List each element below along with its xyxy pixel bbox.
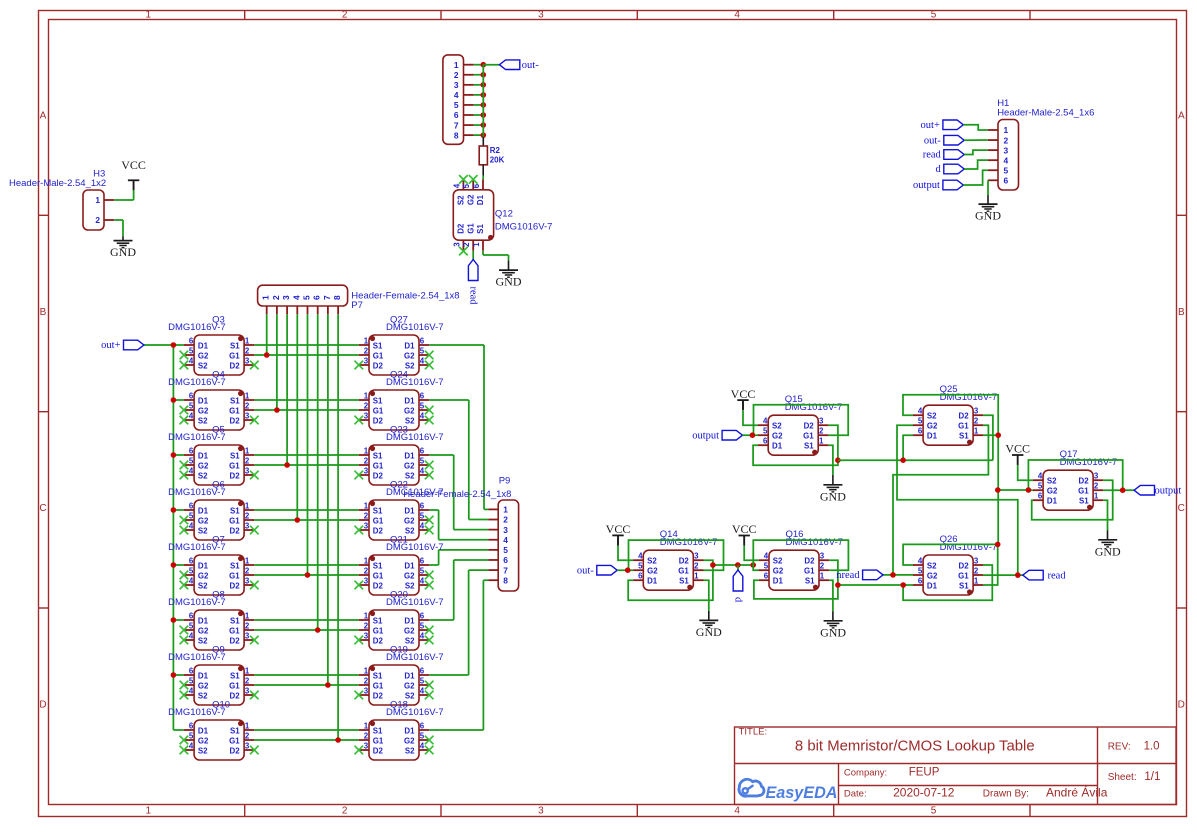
svg-text:D1: D1 — [404, 506, 415, 515]
svg-text:S2: S2 — [772, 422, 782, 431]
svg-text:1: 1 — [1094, 492, 1099, 501]
svg-text:D2: D2 — [804, 422, 815, 431]
svg-text:Header-Female-2.54_1x8: Header-Female-2.54_1x8 — [351, 290, 459, 301]
svg-text:5: 5 — [764, 562, 769, 571]
svg-text:4: 4 — [638, 552, 643, 561]
svg-text:4: 4 — [189, 357, 194, 366]
svg-text:4: 4 — [291, 295, 301, 300]
svg-text:G2: G2 — [927, 571, 938, 580]
svg-text:6: 6 — [189, 557, 194, 566]
svg-text:S1: S1 — [230, 671, 240, 680]
svg-text:6: 6 — [472, 183, 481, 188]
svg-text:D1: D1 — [198, 671, 209, 680]
svg-text:G2: G2 — [466, 194, 475, 205]
svg-text:6: 6 — [189, 447, 194, 456]
svg-text:G1: G1 — [373, 736, 384, 745]
svg-text:1.0: 1.0 — [1144, 741, 1160, 753]
svg-text:3: 3 — [245, 357, 250, 366]
svg-text:G2: G2 — [404, 626, 415, 635]
svg-text:1: 1 — [472, 242, 481, 247]
svg-text:5: 5 — [189, 622, 194, 631]
svg-text:DMG1016V-7: DMG1016V-7 — [168, 597, 226, 608]
svg-text:D1: D1 — [404, 451, 415, 460]
svg-text:S1: S1 — [373, 396, 383, 405]
svg-text:read: read — [468, 287, 479, 306]
svg-text:G2: G2 — [1047, 487, 1058, 496]
svg-text:1/1: 1/1 — [1144, 771, 1160, 783]
svg-text:G1: G1 — [1078, 487, 1089, 496]
svg-text:G2: G2 — [647, 567, 658, 576]
svg-text:4: 4 — [420, 577, 425, 586]
svg-text:S2: S2 — [198, 526, 208, 535]
svg-text:S2: S2 — [927, 561, 937, 570]
svg-text:4: 4 — [454, 90, 459, 100]
svg-text:1: 1 — [454, 60, 459, 70]
svg-text:3: 3 — [974, 557, 979, 566]
svg-text:S2: S2 — [927, 412, 937, 421]
svg-text:2: 2 — [454, 70, 459, 80]
svg-text:4: 4 — [918, 407, 923, 416]
svg-text:3: 3 — [974, 407, 979, 416]
svg-text:3: 3 — [1094, 472, 1099, 481]
svg-text:4: 4 — [420, 632, 425, 641]
svg-text:6: 6 — [420, 502, 425, 511]
svg-text:2: 2 — [974, 417, 979, 426]
svg-text:1: 1 — [364, 337, 369, 346]
svg-text:G2: G2 — [773, 567, 784, 576]
svg-text:1: 1 — [146, 10, 152, 21]
svg-text:4: 4 — [1004, 155, 1009, 165]
svg-text:1: 1 — [820, 572, 825, 581]
svg-text:3: 3 — [538, 806, 544, 817]
svg-text:G2: G2 — [198, 626, 209, 635]
svg-text:3: 3 — [452, 242, 461, 247]
svg-text:D1: D1 — [404, 671, 415, 680]
svg-text:S1: S1 — [373, 671, 383, 680]
svg-text:G1: G1 — [229, 736, 240, 745]
svg-text:3: 3 — [1004, 145, 1009, 155]
svg-text:S1: S1 — [230, 506, 240, 515]
svg-text:DMG1016V-7: DMG1016V-7 — [785, 402, 843, 413]
svg-text:output: output — [692, 430, 719, 441]
svg-text:2: 2 — [694, 562, 699, 571]
svg-text:5: 5 — [420, 512, 425, 521]
svg-text:Header-Male-2.54_1x2: Header-Male-2.54_1x2 — [9, 178, 106, 189]
svg-text:G2: G2 — [404, 516, 415, 525]
svg-text:S2: S2 — [405, 746, 415, 755]
svg-text:4: 4 — [189, 467, 194, 476]
svg-text:output: output — [1155, 485, 1182, 496]
svg-text:D2: D2 — [230, 416, 241, 425]
svg-text:D1: D1 — [198, 616, 209, 625]
svg-text:S1: S1 — [373, 451, 383, 460]
svg-text:S2: S2 — [647, 557, 657, 566]
svg-text:3: 3 — [245, 687, 250, 696]
svg-text:DMG1016V-7: DMG1016V-7 — [168, 432, 226, 443]
svg-text:GND: GND — [110, 245, 136, 259]
svg-text:out-: out- — [522, 60, 539, 71]
svg-text:R2: R2 — [490, 146, 501, 155]
svg-text:DMG1016V-7: DMG1016V-7 — [495, 221, 553, 232]
svg-text:S1: S1 — [230, 726, 240, 735]
svg-text:6: 6 — [638, 572, 643, 581]
svg-text:DMG1016V-7: DMG1016V-7 — [660, 537, 718, 548]
svg-text:4: 4 — [763, 417, 768, 426]
svg-text:Company:: Company: — [844, 768, 887, 779]
svg-text:5: 5 — [918, 417, 923, 426]
svg-text:G1: G1 — [229, 461, 240, 470]
svg-text:D1: D1 — [773, 577, 784, 586]
svg-text:2: 2 — [364, 512, 369, 521]
svg-text:S1: S1 — [804, 442, 814, 451]
svg-text:B: B — [1178, 307, 1185, 318]
svg-text:3: 3 — [364, 632, 369, 641]
svg-text:1: 1 — [819, 437, 824, 446]
svg-text:1: 1 — [245, 447, 250, 456]
svg-text:G1: G1 — [373, 681, 384, 690]
svg-text:D2: D2 — [1079, 477, 1090, 486]
svg-text:2: 2 — [245, 512, 250, 521]
svg-text:5: 5 — [189, 457, 194, 466]
svg-text:S2: S2 — [457, 195, 466, 205]
svg-text:3: 3 — [245, 577, 250, 586]
svg-text:1: 1 — [245, 722, 250, 731]
svg-text:5: 5 — [420, 347, 425, 356]
svg-text:G2: G2 — [198, 681, 209, 690]
svg-text:3: 3 — [364, 522, 369, 531]
svg-text:DMG1016V-7: DMG1016V-7 — [386, 487, 444, 498]
svg-text:6: 6 — [1004, 176, 1009, 186]
svg-text:6: 6 — [763, 437, 768, 446]
svg-text:5: 5 — [302, 295, 312, 300]
svg-text:6: 6 — [420, 722, 425, 731]
svg-text:4: 4 — [189, 412, 194, 421]
svg-text:Header-Male-2.54_1x6: Header-Male-2.54_1x6 — [997, 107, 1094, 118]
svg-text:5: 5 — [189, 567, 194, 576]
svg-text:out+: out+ — [921, 120, 940, 131]
svg-text:D2: D2 — [959, 412, 970, 421]
svg-text:5: 5 — [420, 622, 425, 631]
svg-text:1: 1 — [364, 557, 369, 566]
svg-text:5: 5 — [931, 10, 937, 21]
svg-text:1: 1 — [364, 447, 369, 456]
svg-text:out-: out- — [577, 565, 594, 576]
svg-text:DMG1016V-7: DMG1016V-7 — [168, 487, 226, 498]
svg-text:read: read — [923, 150, 942, 161]
svg-text:Sheet:: Sheet: — [1108, 772, 1137, 783]
svg-text:3: 3 — [819, 417, 824, 426]
svg-text:S1: S1 — [373, 506, 383, 515]
svg-text:3: 3 — [454, 80, 459, 90]
svg-text:6: 6 — [420, 392, 425, 401]
svg-text:A: A — [1178, 111, 1185, 122]
svg-text:2: 2 — [364, 457, 369, 466]
svg-text:D1: D1 — [198, 726, 209, 735]
svg-text:6: 6 — [420, 337, 425, 346]
svg-text:S2: S2 — [198, 471, 208, 480]
svg-text:S2: S2 — [773, 557, 783, 566]
svg-text:6: 6 — [189, 722, 194, 731]
svg-text:3: 3 — [503, 525, 508, 535]
svg-text:G1: G1 — [373, 351, 384, 360]
svg-text:2: 2 — [819, 427, 824, 436]
svg-text:4: 4 — [420, 742, 425, 751]
svg-text:3: 3 — [364, 687, 369, 696]
svg-text:4: 4 — [420, 467, 425, 476]
svg-text:6: 6 — [420, 557, 425, 566]
svg-text:1: 1 — [245, 667, 250, 676]
svg-text:4: 4 — [764, 552, 769, 561]
svg-text:D1: D1 — [404, 341, 415, 350]
svg-text:GND: GND — [496, 275, 522, 289]
svg-text:6: 6 — [189, 392, 194, 401]
svg-text:1: 1 — [245, 502, 250, 511]
svg-text:DMG1016V-7: DMG1016V-7 — [1060, 457, 1118, 468]
svg-text:S1: S1 — [959, 432, 969, 441]
svg-text:4: 4 — [189, 632, 194, 641]
svg-text:FEUP: FEUP — [909, 767, 940, 779]
svg-text:André Ávila: André Ávila — [1046, 784, 1108, 799]
svg-text:D1: D1 — [198, 396, 209, 405]
svg-text:G1: G1 — [373, 571, 384, 580]
svg-text:1: 1 — [503, 505, 508, 515]
svg-text:8: 8 — [454, 130, 459, 140]
svg-text:EasyEDA: EasyEDA — [766, 784, 838, 802]
svg-text:C: C — [1178, 503, 1185, 514]
svg-text:4: 4 — [420, 687, 425, 696]
svg-text:out+: out+ — [101, 340, 120, 351]
svg-text:S2: S2 — [198, 636, 208, 645]
svg-text:G1: G1 — [229, 406, 240, 415]
svg-text:20K: 20K — [490, 156, 505, 165]
svg-text:out-: out- — [924, 135, 941, 146]
svg-text:3: 3 — [245, 412, 250, 421]
svg-text:S1: S1 — [373, 726, 383, 735]
svg-text:G2: G2 — [198, 406, 209, 415]
svg-text:5: 5 — [1004, 165, 1009, 175]
svg-text:DMG1016V-7: DMG1016V-7 — [386, 432, 444, 443]
svg-text:D1: D1 — [404, 616, 415, 625]
svg-text:5: 5 — [918, 567, 923, 576]
svg-text:4: 4 — [420, 357, 425, 366]
svg-text:VCC: VCC — [1005, 442, 1030, 456]
svg-text:D1: D1 — [927, 432, 938, 441]
svg-text:3: 3 — [364, 467, 369, 476]
svg-text:1: 1 — [694, 572, 699, 581]
svg-text:4: 4 — [420, 412, 425, 421]
svg-text:8 bit Memristor/CMOS Lookup Ta: 8 bit Memristor/CMOS Lookup Table — [795, 738, 1035, 754]
svg-text:1: 1 — [1004, 125, 1009, 135]
svg-text:2: 2 — [245, 567, 250, 576]
svg-text:6: 6 — [420, 667, 425, 676]
svg-text:2: 2 — [342, 806, 348, 817]
svg-text:G1: G1 — [229, 516, 240, 525]
svg-text:Drawn By:: Drawn By: — [983, 788, 1029, 799]
svg-text:D2: D2 — [804, 557, 815, 566]
svg-text:8: 8 — [503, 575, 508, 585]
svg-text:S2: S2 — [198, 691, 208, 700]
svg-text:D1: D1 — [647, 577, 658, 586]
svg-text:D2: D2 — [373, 691, 384, 700]
svg-text:G1: G1 — [229, 626, 240, 635]
svg-text:3: 3 — [245, 632, 250, 641]
svg-text:Q12: Q12 — [495, 209, 513, 220]
svg-text:1: 1 — [146, 806, 152, 817]
svg-text:D2: D2 — [679, 557, 690, 566]
svg-text:G1: G1 — [958, 571, 969, 580]
svg-text:D1: D1 — [404, 726, 415, 735]
svg-text:1: 1 — [245, 337, 250, 346]
svg-text:GND: GND — [696, 625, 722, 639]
svg-text:1: 1 — [261, 295, 271, 300]
svg-text:Date:: Date: — [844, 788, 867, 799]
svg-text:G2: G2 — [198, 516, 209, 525]
svg-text:4: 4 — [189, 742, 194, 751]
svg-text:D2: D2 — [230, 361, 241, 370]
svg-text:6: 6 — [503, 555, 508, 565]
svg-text:3: 3 — [364, 357, 369, 366]
svg-text:6: 6 — [312, 295, 322, 300]
svg-text:1: 1 — [245, 612, 250, 621]
svg-text:G1: G1 — [958, 422, 969, 431]
svg-text:D2: D2 — [373, 636, 384, 645]
svg-text:2: 2 — [364, 402, 369, 411]
svg-text:G2: G2 — [198, 351, 209, 360]
svg-text:S1: S1 — [373, 616, 383, 625]
svg-text:2: 2 — [364, 732, 369, 741]
svg-text:GND: GND — [1095, 544, 1121, 558]
svg-text:2020-07-12: 2020-07-12 — [893, 785, 955, 799]
svg-text:VCC: VCC — [731, 387, 756, 401]
svg-text:3: 3 — [820, 552, 825, 561]
svg-text:3: 3 — [538, 10, 544, 21]
svg-text:4: 4 — [503, 535, 508, 545]
svg-text:S1: S1 — [230, 451, 240, 460]
svg-text:D2: D2 — [230, 526, 241, 535]
svg-text:D2: D2 — [230, 746, 241, 755]
svg-text:S2: S2 — [1047, 477, 1057, 486]
svg-text:G2: G2 — [772, 432, 783, 441]
svg-text:G1: G1 — [229, 351, 240, 360]
svg-text:2: 2 — [245, 677, 250, 686]
svg-text:S1: S1 — [373, 561, 383, 570]
svg-text:S1: S1 — [373, 341, 383, 350]
svg-text:DMG1016V-7: DMG1016V-7 — [386, 377, 444, 388]
svg-text:D1: D1 — [772, 442, 783, 451]
svg-text:6: 6 — [764, 572, 769, 581]
svg-text:5: 5 — [462, 183, 471, 188]
svg-text:2: 2 — [820, 562, 825, 571]
svg-text:d: d — [733, 597, 744, 603]
svg-text:D2: D2 — [373, 526, 384, 535]
svg-text:3: 3 — [245, 467, 250, 476]
svg-text:5: 5 — [454, 100, 459, 110]
svg-text:G1: G1 — [803, 432, 814, 441]
svg-text:6: 6 — [189, 502, 194, 511]
svg-text:S1: S1 — [476, 224, 485, 234]
svg-text:D2: D2 — [373, 416, 384, 425]
svg-text:G1: G1 — [804, 567, 815, 576]
svg-text:1: 1 — [974, 577, 979, 586]
svg-text:2: 2 — [364, 347, 369, 356]
svg-text:2: 2 — [503, 515, 508, 525]
svg-text:G2: G2 — [198, 461, 209, 470]
svg-text:6: 6 — [189, 612, 194, 621]
svg-text:B: B — [40, 307, 47, 318]
svg-text:read: read — [1048, 570, 1067, 581]
svg-text:D2: D2 — [373, 581, 384, 590]
svg-text:1: 1 — [974, 427, 979, 436]
svg-text:4: 4 — [734, 10, 740, 21]
svg-text:D2: D2 — [373, 471, 384, 480]
svg-text:G1: G1 — [373, 406, 384, 415]
svg-text:VCC: VCC — [732, 522, 757, 536]
svg-text:C: C — [39, 503, 46, 514]
svg-text:G2: G2 — [198, 571, 209, 580]
svg-text:REV:: REV: — [1108, 742, 1131, 753]
svg-text:7: 7 — [322, 295, 332, 300]
svg-text:2: 2 — [1004, 135, 1009, 145]
svg-text:5: 5 — [931, 806, 937, 817]
svg-text:S1: S1 — [1079, 497, 1089, 506]
svg-text:5: 5 — [638, 562, 643, 571]
svg-text:GND: GND — [820, 625, 846, 639]
svg-text:G2: G2 — [404, 461, 415, 470]
svg-text:G1: G1 — [229, 571, 240, 580]
svg-text:DMG1016V-7: DMG1016V-7 — [168, 542, 226, 553]
svg-text:3: 3 — [364, 577, 369, 586]
svg-text:DMG1016V-7: DMG1016V-7 — [940, 542, 998, 553]
svg-text:P7: P7 — [351, 300, 363, 311]
svg-text:7: 7 — [503, 565, 508, 575]
svg-text:DMG1016V-7: DMG1016V-7 — [386, 597, 444, 608]
svg-text:1: 1 — [245, 392, 250, 401]
svg-text:DMG1016V-7: DMG1016V-7 — [386, 707, 444, 718]
svg-text:7: 7 — [454, 120, 459, 130]
svg-text:2: 2 — [245, 402, 250, 411]
svg-text:4: 4 — [189, 687, 194, 696]
svg-text:S2: S2 — [198, 746, 208, 755]
svg-text:D2: D2 — [230, 636, 241, 645]
svg-text:S1: S1 — [230, 341, 240, 350]
svg-text:S1: S1 — [679, 577, 689, 586]
svg-text:2: 2 — [462, 242, 471, 247]
svg-text:D2: D2 — [373, 746, 384, 755]
svg-text:3: 3 — [245, 522, 250, 531]
svg-text:2: 2 — [95, 215, 100, 225]
svg-text:D2: D2 — [373, 361, 384, 370]
svg-text:S1: S1 — [805, 577, 815, 586]
svg-text:G2: G2 — [404, 571, 415, 580]
svg-text:G2: G2 — [404, 351, 415, 360]
svg-text:2: 2 — [245, 347, 250, 356]
svg-text:2: 2 — [245, 622, 250, 631]
svg-text:TITLE:: TITLE: — [739, 727, 768, 738]
svg-text:1: 1 — [95, 195, 100, 205]
svg-text:3: 3 — [364, 412, 369, 421]
svg-text:6: 6 — [420, 612, 425, 621]
svg-text:8: 8 — [332, 295, 342, 300]
svg-text:G1: G1 — [373, 516, 384, 525]
svg-text:D2: D2 — [457, 223, 466, 234]
svg-text:VCC: VCC — [606, 522, 631, 536]
svg-text:5: 5 — [189, 677, 194, 686]
svg-text:4: 4 — [189, 577, 194, 586]
svg-text:5: 5 — [1038, 482, 1043, 491]
svg-text:D2: D2 — [959, 561, 970, 570]
svg-text:6: 6 — [189, 667, 194, 676]
svg-text:DMG1016V-7: DMG1016V-7 — [168, 377, 226, 388]
